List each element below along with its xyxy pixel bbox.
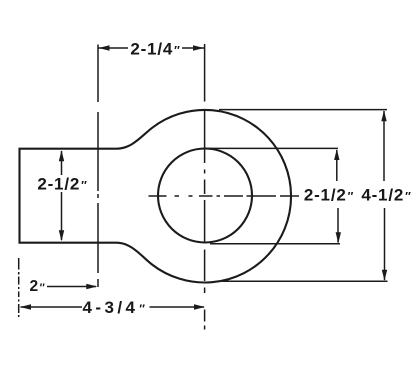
svg-text:4-1/2″: 4-1/2″ [361,186,411,205]
svg-text:2-1/2″: 2-1/2″ [304,186,354,205]
svg-text:2″: 2″ [30,278,46,295]
svg-text:2-1/2″: 2-1/2″ [37,175,87,194]
svg-text:2-1/4″: 2-1/4″ [130,40,180,59]
svg-text:4-3/4″: 4-3/4″ [83,298,149,317]
